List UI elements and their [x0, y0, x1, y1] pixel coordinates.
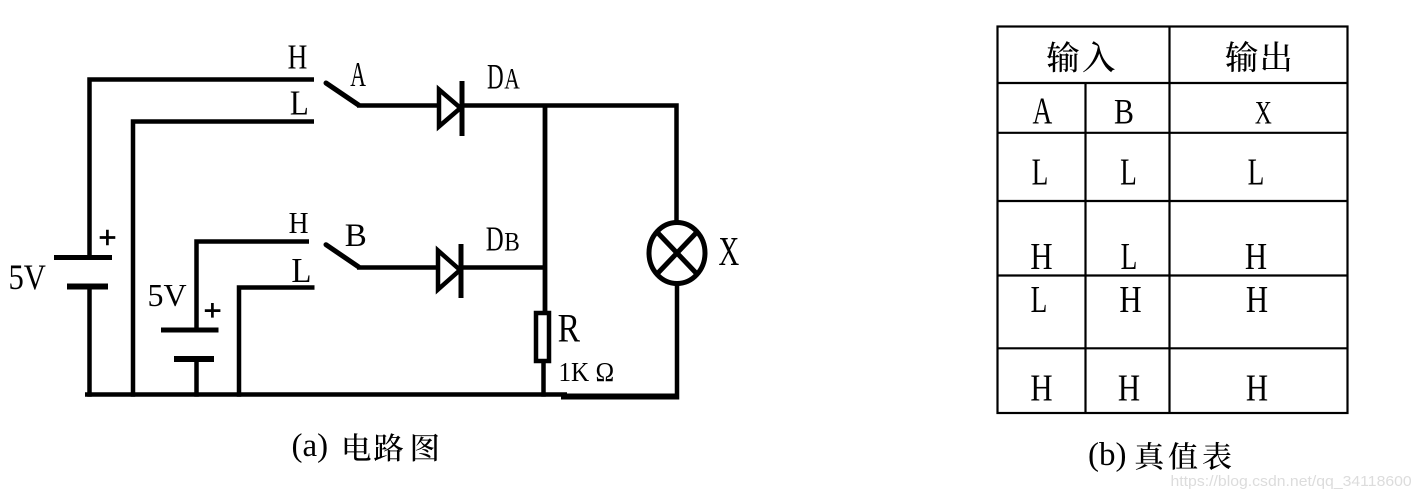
diode DB triangle: [438, 251, 460, 290]
wire H terminal of switch A with left vertical down to battery B1: [90, 80, 315, 258]
svg-text:H: H: [1246, 368, 1268, 410]
svg-text:H: H: [1245, 236, 1267, 278]
resistor R body: [536, 313, 549, 361]
table row3 cell A=L: [1031, 279, 1048, 321]
battery B2 negative plate: [174, 356, 214, 362]
svg-text:L: L: [1031, 279, 1048, 321]
wire diode DB to output node: [461, 265, 546, 270]
svg-text:D: D: [486, 219, 504, 258]
label R resistor designator: [558, 306, 581, 350]
svg-text:R: R: [558, 306, 581, 350]
svg-text:D: D: [487, 58, 504, 97]
label H switch A high input: [288, 37, 308, 76]
battery B1 plus sign: [100, 230, 116, 246]
wire diode DA to top-right corner down to lamp: [462, 106, 677, 225]
svg-text:L: L: [291, 252, 311, 290]
svg-text:1K Ω: 1K Ω: [559, 357, 615, 387]
svg-text:A: A: [350, 56, 366, 94]
table cell B: [1114, 93, 1134, 132]
wire switch A pole to diode DA: [357, 103, 439, 108]
label 5V battery B1: [9, 258, 46, 298]
table row2 cell B=L: [1121, 236, 1138, 278]
svg-text:H: H: [289, 207, 309, 241]
svg-text:X: X: [1255, 96, 1272, 132]
svg-text:L: L: [1120, 151, 1137, 193]
svg-text:X: X: [719, 228, 740, 274]
label DB subscript B: [504, 228, 520, 257]
diode DB cathode bar: [459, 244, 464, 298]
truth table column divider between A and B: [1084, 83, 1086, 413]
switch B blade: [326, 245, 359, 267]
label H switch B high input: [289, 207, 309, 241]
label DA subscript A: [504, 62, 520, 95]
diode DA triangle: [439, 90, 461, 127]
svg-text:B: B: [345, 218, 367, 254]
diode DA cathode bar: [460, 81, 465, 136]
bottom rail wire: [85, 392, 567, 397]
table row3 cell X=H: [1246, 279, 1268, 321]
svg-text:L: L: [1032, 151, 1049, 193]
wire switch B pole to diode DB: [357, 265, 438, 270]
truth table outer border: [998, 27, 1348, 414]
truth table row line under A B X: [998, 132, 1348, 134]
battery B1 positive plate: [54, 255, 112, 260]
wire L terminal of switch A with vertical down to bottom rail: [133, 122, 314, 397]
svg-text:B: B: [504, 228, 520, 257]
label L switch A low input: [290, 85, 309, 123]
svg-text:H: H: [1030, 236, 1052, 278]
wire battery B1 negative terminal to bottom rail: [87, 289, 92, 397]
svg-text:(a): (a): [292, 428, 329, 464]
label B switch B: [345, 218, 367, 254]
table row1 cell B=L: [1120, 151, 1137, 193]
svg-text:B: B: [1114, 93, 1134, 132]
label 1K ohm resistor value: [559, 357, 615, 387]
svg-text:L: L: [290, 85, 309, 123]
table row2 cell X=H: [1245, 236, 1267, 278]
wire L terminal of switch B with vertical down to bottom rail: [239, 288, 315, 397]
table row4 cell X=H: [1246, 368, 1268, 410]
truth table row line under L H H: [998, 347, 1348, 349]
svg-text:A: A: [504, 62, 520, 95]
svg-text:(b): (b): [1088, 437, 1126, 473]
svg-text:H: H: [1118, 368, 1140, 410]
svg-text:L: L: [1248, 151, 1265, 193]
bottom rail wire thick right segment: [561, 394, 679, 400]
switch A blade: [326, 83, 359, 105]
watermark: [1171, 474, 1412, 490]
table cell A: [1033, 90, 1053, 132]
label DA diode A designator: [487, 58, 504, 97]
table row1 cell A=L: [1032, 151, 1049, 193]
table row1 cell X=L: [1248, 151, 1265, 193]
table cell X: [1255, 96, 1272, 132]
table row3 cell B=H: [1119, 279, 1141, 321]
truth table column divider between input and output: [1168, 27, 1170, 414]
wire output node vertical from DA line down to resistor: [543, 106, 548, 314]
lamp X bulb cross: [657, 232, 697, 274]
wire resistor bottom to bottom rail: [541, 361, 546, 397]
lamp X bulb circle: [649, 223, 705, 284]
battery B2 plus sign: [205, 303, 221, 318]
table header input: [1047, 41, 1079, 72]
truth table row line under L L L: [998, 200, 1348, 202]
wire lamp bottom to bottom rail: [675, 283, 680, 400]
label X lamp designator: [719, 228, 740, 274]
label L switch B low input: [291, 252, 311, 290]
table row4 cell B=H: [1118, 368, 1140, 410]
table row4 cell A=H: [1030, 368, 1052, 410]
battery B1 negative plate: [67, 284, 108, 290]
truth table row line under H L H: [998, 274, 1348, 276]
truth table row line under header: [998, 82, 1348, 84]
svg-text:A: A: [1033, 90, 1053, 132]
wire battery B2 negative terminal to bottom rail: [194, 361, 199, 397]
svg-text:H: H: [1246, 279, 1268, 321]
svg-text:5V: 5V: [148, 277, 187, 313]
battery B2 positive plate: [161, 328, 219, 333]
wire H terminal of switch B with vertical down to battery B2: [197, 242, 310, 331]
label A switch A: [350, 56, 366, 94]
table header output: [1226, 41, 1258, 72]
label 5V battery B2: [148, 277, 187, 313]
svg-text:H: H: [1030, 368, 1052, 410]
svg-text:https://blog.csdn.net/qq_34118: https://blog.csdn.net/qq_34118600: [1171, 474, 1412, 490]
table row2 cell A=H: [1030, 236, 1052, 278]
svg-text:H: H: [1119, 279, 1141, 321]
svg-text:5V: 5V: [9, 258, 46, 298]
label DB diode B designator: [486, 219, 504, 258]
svg-text:L: L: [1121, 236, 1138, 278]
svg-text:H: H: [288, 37, 308, 76]
